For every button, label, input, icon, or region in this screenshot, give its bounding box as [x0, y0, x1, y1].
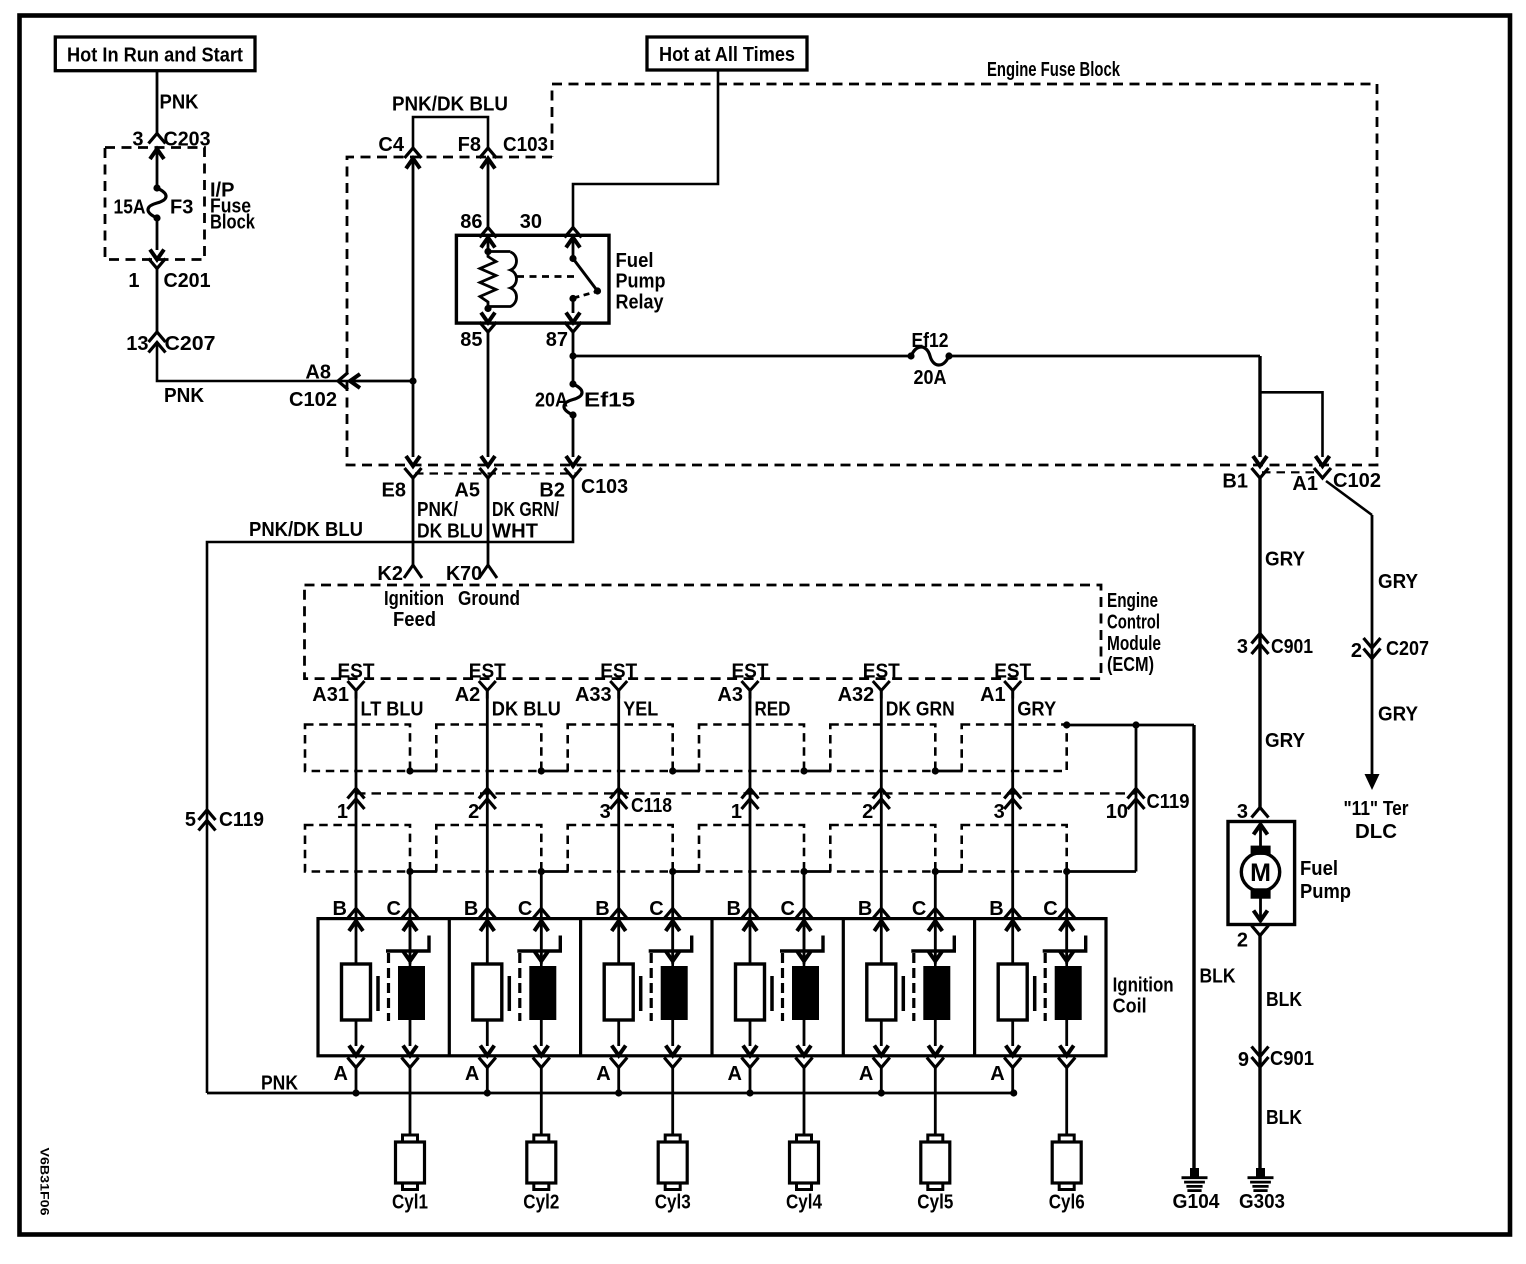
wire coil 4 pin A to PNK bus: [749, 1068, 752, 1094]
splice PNK bus coil 5: [878, 1089, 885, 1096]
splice row2 after box 2: [538, 868, 545, 875]
svg-text:Hot at All Times: Hot at All Times: [659, 44, 795, 66]
relay actuator dashed link: [517, 275, 578, 278]
svg-text:Fuel: Fuel: [616, 250, 654, 272]
ignition coil 4 secondary out: [796, 1020, 813, 1068]
ignition coil divider 3: [710, 919, 713, 1056]
fuse Ef15 20A: [535, 380, 635, 418]
ignition coil 5 shield (dashed): [912, 953, 915, 1021]
ignition coil 5 core: [902, 976, 906, 1011]
ECM pin A2 EST output: [455, 661, 506, 707]
connector C103 pin B2: [539, 456, 628, 502]
relay pin 87: [546, 313, 582, 352]
splice row1 after box 2: [538, 767, 545, 774]
engine fuse block boundary: [347, 59, 1377, 465]
harness conduit row2 box 4: [699, 825, 804, 872]
svg-text:EST: EST: [469, 661, 506, 683]
ignition coil 6 HT hook: [1043, 936, 1086, 952]
svg-text:V6B31F06: V6B31F06: [38, 1148, 52, 1216]
svg-text:B1: B1: [1222, 471, 1248, 493]
splice row1 after box 4: [800, 767, 807, 774]
wire F8 to relay 86: [487, 159, 490, 229]
connector C102 pin A1: [1292, 456, 1381, 495]
svg-text:C901: C901: [1270, 1048, 1314, 1070]
connector C103 pin A5: [454, 456, 496, 502]
svg-text:A33: A33: [575, 684, 612, 706]
svg-text:DK GRN/: DK GRN/: [492, 499, 559, 521]
svg-text:9: 9: [1238, 1049, 1249, 1071]
ignition coil 2 pin A: [465, 1020, 496, 1085]
ignition coil 1 pin A: [334, 1020, 365, 1085]
fuel pump box: [1228, 822, 1295, 925]
svg-text:Ignition: Ignition: [1113, 975, 1174, 997]
connector C207 pin 13: [126, 332, 215, 355]
splice row1 after box 1: [406, 767, 413, 774]
ignition coil 1 spark arrow: [409, 921, 412, 966]
wire coil 5 pin C drop: [934, 872, 937, 965]
svg-text:85: 85: [460, 329, 482, 351]
wire Ef15 to B2: [572, 415, 575, 457]
svg-text:Cyl1: Cyl1: [392, 1192, 428, 1214]
svg-text:PNK/DK BLU: PNK/DK BLU: [249, 519, 363, 541]
ignition coil 2 pin B: [464, 898, 496, 931]
ECM pin A31 EST output: [312, 661, 374, 707]
svg-text:G104: G104: [1173, 1191, 1221, 1213]
svg-text:PNK/: PNK/: [417, 499, 458, 521]
label Ignition Coil: [1113, 975, 1174, 1018]
svg-text:EST: EST: [994, 661, 1031, 683]
svg-text:2: 2: [1237, 930, 1248, 952]
svg-text:C901: C901: [1271, 636, 1313, 658]
wire relay 30 to Hot at All Times: [573, 70, 718, 228]
svg-text:WHT: WHT: [492, 521, 538, 543]
label I/P Fuse Block: [210, 180, 256, 234]
spark plug Cyl6: [1049, 1135, 1085, 1214]
ignition coil assembly box: [318, 919, 1106, 1056]
ground G104: [1173, 1168, 1221, 1213]
junction: [569, 352, 576, 359]
connector C103 bar: [415, 472, 578, 474]
svg-text:30: 30: [520, 211, 542, 233]
wire B1 drop: [1258, 356, 1261, 457]
wire A1 branch: [1260, 392, 1323, 457]
ignition coil 1 primary winding: [342, 964, 371, 1020]
splice PNK bus coil 1: [352, 1089, 359, 1096]
harness conduit row2 box 5: [830, 825, 935, 872]
svg-text:B: B: [989, 898, 1003, 920]
svg-text:Fuel: Fuel: [1300, 858, 1338, 880]
svg-text:PNK: PNK: [164, 385, 205, 407]
wire coil 4 to spark plug: [803, 1068, 806, 1136]
svg-text:Hot In Run and Start: Hot In Run and Start: [67, 45, 243, 67]
svg-text:PNK/DK BLU: PNK/DK BLU: [392, 94, 508, 116]
connector C203 pin 3: [132, 129, 210, 160]
svg-text:A32: A32: [838, 684, 875, 706]
label PNK/DK BLU wire color: [417, 499, 483, 543]
wire coil 2 pin A to PNK bus: [486, 1068, 489, 1094]
ignition coil 4 shield (dashed): [781, 953, 784, 1021]
connector C207 pin 2: [1351, 638, 1429, 662]
svg-text:C: C: [649, 898, 663, 920]
ignition coil 3 pin C: [649, 898, 681, 931]
svg-text:EST: EST: [600, 661, 637, 683]
label Fuel Pump Relay: [616, 250, 666, 313]
wire jumper C4 to F8: [413, 117, 488, 148]
arrow to DLC: [1365, 774, 1380, 790]
label DK GRN/WHT wire color: [492, 499, 559, 543]
wire Ef12 feed: [573, 355, 911, 358]
connector C102 pin A8: [289, 362, 360, 412]
fuel pump motor: [1241, 825, 1279, 921]
wire C119 pin 10 drop: [1135, 725, 1138, 872]
ignition coil 2 pin C: [518, 898, 550, 931]
svg-text:C207: C207: [165, 333, 216, 355]
relay pin 86: [460, 211, 496, 248]
svg-text:Ef15: Ef15: [584, 390, 635, 412]
svg-text:G303: G303: [1239, 1191, 1285, 1213]
svg-text:15A: 15A: [114, 197, 146, 219]
ignition coil divider 4: [842, 919, 845, 1056]
svg-text:EST: EST: [338, 661, 375, 683]
svg-text:A3: A3: [717, 684, 743, 706]
svg-text:Cyl5: Cyl5: [917, 1192, 953, 1214]
wire coil 1 pin C drop: [409, 872, 412, 965]
svg-text:EST: EST: [732, 661, 769, 683]
connector C119 pin 2 (coil 5): [862, 789, 890, 824]
wire PNK bus: [207, 1073, 1014, 1095]
svg-text:Module: Module: [1107, 633, 1161, 655]
harness conduit row2 box 2: [436, 825, 541, 872]
ignition coil 6 pin A: [990, 1020, 1021, 1085]
splice row1 after box 3: [669, 767, 676, 774]
harness conduit row1 box 5: [830, 725, 935, 772]
label "11" Ter DLC: [1344, 798, 1409, 843]
svg-text:GRY: GRY: [1265, 549, 1306, 571]
wire coil 6 to spark plug: [1065, 1068, 1068, 1136]
svg-text:K2: K2: [377, 563, 403, 585]
wire to coil 6 pin C: [1063, 868, 1070, 875]
ignition coil 3 core: [639, 976, 643, 1011]
svg-text:C: C: [1043, 898, 1057, 920]
ECM pin A1 EST output: [980, 661, 1031, 707]
svg-text:A1: A1: [1292, 473, 1318, 495]
svg-text:BLK: BLK: [1266, 989, 1302, 1011]
ignition coil 3 secondary out: [664, 1020, 681, 1068]
svg-text:C: C: [912, 898, 926, 920]
ignition coil 1 secondary out: [402, 1020, 419, 1068]
svg-text:YEL: YEL: [623, 699, 658, 721]
ignition coil 6 secondary winding: [1055, 966, 1082, 1020]
ignition coil 5 pin B: [858, 898, 890, 931]
svg-text:Cyl6: Cyl6: [1049, 1192, 1085, 1214]
svg-text:A: A: [465, 1063, 479, 1085]
svg-text:Relay: Relay: [616, 291, 665, 313]
connector C118/C119 row bar: [356, 792, 1136, 794]
wire C4 to E8: [412, 159, 415, 458]
ignition coil 3 primary winding: [604, 964, 633, 1020]
wire coil 2 pin C drop: [540, 872, 543, 965]
svg-text:86: 86: [460, 211, 482, 233]
junction: [409, 377, 416, 384]
splice PNK bus coil 4: [746, 1089, 753, 1096]
svg-text:Cyl3: Cyl3: [655, 1192, 691, 1214]
ignition coil 6 pin B: [989, 898, 1021, 931]
svg-text:DK BLU: DK BLU: [492, 699, 561, 721]
ignition coil 1 secondary winding: [398, 966, 425, 1020]
svg-text:"11" Ter: "11" Ter: [1344, 798, 1409, 820]
svg-text:A5: A5: [454, 480, 480, 502]
ECM pin K2 fork: [377, 563, 422, 585]
svg-text:A: A: [859, 1063, 873, 1085]
svg-text:A: A: [990, 1063, 1004, 1085]
svg-text:C: C: [518, 898, 532, 920]
ignition coil 4 primary winding: [736, 964, 765, 1020]
ignition coil 4 pin C: [781, 898, 813, 931]
svg-text:B: B: [858, 898, 872, 920]
ignition coil 5 primary winding: [867, 964, 896, 1020]
ignition coil 1 shield (dashed): [387, 953, 390, 1021]
relay switch: [569, 238, 601, 314]
label Engine Control Module (ECM): [1107, 590, 1161, 676]
wire EST A31 to coil 1 pin B: [355, 699, 358, 965]
ignition coil 3 HT hook: [649, 936, 692, 952]
svg-text:5: 5: [185, 809, 196, 831]
svg-text:C118: C118: [631, 795, 672, 817]
svg-text:GRY: GRY: [1378, 571, 1419, 593]
svg-text:C: C: [387, 898, 401, 920]
ignition coil 5 pin A: [859, 1020, 890, 1085]
svg-text:F8: F8: [458, 134, 481, 156]
svg-text:A31: A31: [312, 684, 349, 706]
svg-text:Control: Control: [1107, 611, 1160, 633]
svg-text:C207: C207: [1386, 638, 1429, 660]
svg-text:Cyl2: Cyl2: [523, 1192, 559, 1214]
wire BLK to G104: [1192, 725, 1195, 1168]
fuse Ef12 20A: [907, 330, 952, 389]
harness conduit row2 box 6: [962, 825, 1067, 872]
splice PNK bus coil 2: [484, 1089, 491, 1096]
ignition coil 5 secondary winding: [923, 966, 950, 1020]
relay coil: [480, 238, 517, 313]
ignition coil 4 spark arrow: [803, 921, 806, 966]
svg-text:2: 2: [1351, 640, 1362, 662]
wire top bus to C119 pin 10 and G104: [1063, 721, 1070, 728]
ignition coil 4 pin A: [728, 1020, 759, 1085]
wire coil 1 pin A to PNK bus: [355, 1068, 358, 1094]
connector C103 pin F8: [458, 134, 548, 169]
ECM pin A3 EST output: [717, 661, 768, 707]
svg-text:3: 3: [1237, 801, 1248, 823]
harness conduit row1 box 6: [962, 725, 1067, 772]
svg-text:E8: E8: [382, 480, 406, 502]
splice row2 after box 5: [932, 868, 939, 875]
svg-text:GRY: GRY: [1378, 704, 1419, 726]
svg-text:1: 1: [731, 801, 742, 823]
svg-text:C119: C119: [219, 809, 264, 831]
svg-text:A1: A1: [980, 684, 1006, 706]
connector C103 pin C4: [378, 134, 421, 169]
svg-text:3: 3: [994, 801, 1005, 823]
ignition coil 5 pin C: [912, 898, 944, 931]
connector C102 pin B1: [1222, 456, 1268, 493]
svg-text:B: B: [727, 898, 741, 920]
svg-text:1: 1: [128, 270, 139, 292]
wire coil 3 to spark plug: [671, 1068, 674, 1136]
svg-text:(ECM): (ECM): [1107, 654, 1154, 676]
svg-text:DK BLU: DK BLU: [417, 521, 483, 543]
svg-text:Ground: Ground: [458, 588, 520, 610]
ignition coil 4 pin B: [727, 898, 759, 931]
svg-text:3: 3: [600, 801, 611, 823]
harness conduit row2 box 3: [568, 825, 673, 872]
svg-text:DLC: DLC: [1355, 821, 1397, 843]
relay pin 30: [520, 211, 582, 248]
svg-text:Ef12: Ef12: [912, 330, 949, 352]
svg-text:GRY: GRY: [1017, 699, 1057, 721]
ignition coil 1 pin C: [387, 898, 419, 931]
ignition coil 2 secondary out: [533, 1020, 550, 1068]
wire coil 3 pin A to PNK bus: [617, 1068, 620, 1094]
ignition coil 6 primary winding: [998, 964, 1027, 1020]
ignition coil 2 primary winding: [473, 964, 502, 1020]
ignition coil 2 secondary winding: [529, 966, 556, 1020]
relay pin 85: [460, 313, 496, 352]
svg-text:Pump: Pump: [616, 271, 666, 293]
ignition coil 3 pin B: [595, 898, 627, 931]
spark plug Cyl3: [655, 1135, 691, 1214]
ECM pin A33 EST output: [575, 661, 637, 707]
wire fuel pump BLK to G303: [1258, 936, 1261, 1169]
ignition coil 4 secondary winding: [792, 966, 819, 1020]
ignition coil 6 core: [1033, 976, 1037, 1011]
svg-text:BLK: BLK: [1266, 1107, 1302, 1129]
wire: [156, 269, 159, 333]
splice row1 after box 5: [932, 767, 939, 774]
svg-text:Ignition: Ignition: [384, 588, 444, 610]
svg-text:EST: EST: [863, 661, 900, 683]
wire EST A1 to coil 6 pin B: [1011, 699, 1014, 965]
splice row2 after box 3: [669, 868, 676, 875]
I/P fuse block box: [105, 148, 205, 260]
svg-text:A: A: [334, 1063, 348, 1085]
wire relay 85 to A5: [487, 332, 490, 457]
label Fuel Pump: [1300, 858, 1351, 903]
svg-text:10: 10: [1106, 801, 1128, 823]
wire PNK to C102: [157, 343, 350, 408]
svg-text:Coil: Coil: [1113, 996, 1147, 1018]
ignition coil 5 HT hook: [911, 936, 954, 952]
wire E8 to K2: [412, 478, 415, 565]
connector C119 pin 3 (coil 6): [994, 789, 1022, 824]
ECM pin K70 fork: [446, 563, 497, 585]
connector C118 pin 2 (coil 2): [468, 789, 496, 824]
svg-text:K70: K70: [446, 563, 482, 585]
connector C103 pin E8: [382, 456, 422, 502]
wire relay 87 down: [572, 332, 575, 384]
wire EST A33 to coil 3 pin B: [617, 699, 620, 965]
harness conduit row1 box 2: [436, 725, 541, 772]
svg-text:Engine: Engine: [1107, 590, 1158, 612]
svg-text:BLK: BLK: [1200, 966, 1236, 988]
svg-text:F3: F3: [170, 197, 193, 219]
wire to B1: [949, 355, 1260, 358]
ignition coil 2 shield (dashed): [518, 953, 521, 1021]
connector C119 pin 5: [185, 809, 264, 831]
svg-text:Block: Block: [210, 212, 256, 234]
svg-text:13: 13: [126, 333, 148, 355]
ignition coil 4 core: [770, 976, 774, 1011]
connector C118 pin 3 (coil 3): [600, 789, 628, 824]
svg-text:C203: C203: [164, 129, 211, 151]
svg-text:Pump: Pump: [1300, 881, 1351, 903]
ignition coil 6 spark arrow: [1065, 921, 1068, 966]
ignition coil 5 secondary out: [927, 1020, 944, 1068]
connector C102 bar: [1262, 471, 1320, 473]
svg-text:C119: C119: [1147, 791, 1190, 813]
spark plug Cyl4: [786, 1135, 823, 1214]
connector C119 pin 1 (coil 4): [731, 789, 759, 824]
svg-text:B: B: [595, 898, 609, 920]
splice row2 after box 4: [800, 868, 807, 875]
connector C118 pin 1 (coil 1): [337, 789, 365, 824]
svg-text:C103: C103: [581, 476, 628, 498]
svg-text:B: B: [464, 898, 478, 920]
wire EST A3 to coil 4 pin B: [749, 699, 752, 965]
harness conduit row1 box 4: [699, 725, 804, 772]
harness conduit row2 box 1: [305, 825, 410, 872]
harness conduit row1 box 1: [305, 725, 410, 772]
wire coil 5 pin A to PNK bus: [880, 1068, 883, 1094]
wire A1 GRY diagonal: [1326, 481, 1372, 515]
svg-text:2: 2: [468, 801, 479, 823]
ECM box: [305, 585, 1102, 679]
svg-text:Engine Fuse Block: Engine Fuse Block: [987, 59, 1121, 81]
svg-text:LT BLU: LT BLU: [361, 699, 424, 721]
wire coil 1 to spark plug: [409, 1068, 412, 1136]
wire A5 to K70: [487, 478, 490, 565]
wire B2 to left vertical: [207, 478, 573, 1093]
node Hot In Run and Start: [55, 37, 255, 71]
svg-text:RED: RED: [755, 699, 791, 721]
svg-text:2: 2: [862, 801, 873, 823]
ignition coil 5 spark arrow: [934, 921, 937, 966]
ignition coil 3 secondary winding: [661, 966, 688, 1020]
connector C901 pin 9: [1238, 1047, 1314, 1072]
svg-text:A8: A8: [305, 362, 331, 384]
svg-text:PNK: PNK: [160, 92, 200, 114]
ignition coil 3 spark arrow: [671, 921, 674, 966]
connector C901 pin 3: [1237, 634, 1313, 659]
svg-text:20A: 20A: [914, 367, 947, 389]
ECM pin A32 EST output: [838, 661, 900, 707]
svg-text:87: 87: [546, 329, 568, 351]
ignition coil 6 secondary out: [1058, 1020, 1075, 1068]
ignition coil 2 core: [508, 976, 512, 1011]
svg-text:M: M: [1250, 859, 1271, 887]
splice PNK bus coil 6: [1010, 1089, 1017, 1096]
wire: [350, 380, 413, 383]
wire coil 5 to spark plug: [934, 1068, 937, 1136]
fuel pump relay box: [456, 235, 609, 323]
spark plug Cyl1: [392, 1135, 428, 1214]
ignition coil 4 HT hook: [780, 936, 823, 952]
wire EST A32 to coil 5 pin B: [880, 699, 883, 965]
ignition coil 3 shield (dashed): [650, 953, 653, 1021]
fuel pump pin 2: [1237, 926, 1269, 952]
svg-text:C201: C201: [164, 270, 211, 292]
wire from Hot In Run box: [156, 71, 159, 133]
svg-text:20A: 20A: [535, 390, 568, 412]
